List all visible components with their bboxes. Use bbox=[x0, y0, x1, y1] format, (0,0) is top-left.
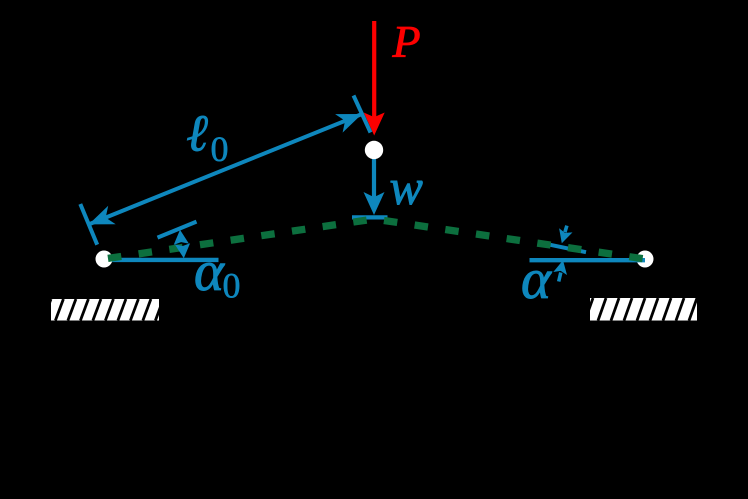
angle alpha: up arrowhead bbox=[553, 260, 567, 275]
pin joint: apex circle bbox=[365, 141, 383, 159]
displacement w: end tick bbox=[352, 215, 388, 219]
wire: horizontal reference line at left pin bbox=[104, 258, 219, 262]
angle alpha0: bar-direction tick bbox=[158, 222, 197, 238]
pin joint: right support circle bbox=[637, 251, 654, 268]
deformed bars: green dashed polyline bbox=[104, 219, 645, 259]
svg-text:α: α bbox=[521, 248, 552, 311]
dimension ell_0: right end tick bbox=[354, 96, 371, 133]
dimension ell_0: shaft bbox=[89, 114, 362, 224]
force P: arrowhead bbox=[364, 113, 385, 136]
svg-text:P: P bbox=[392, 16, 421, 67]
dimension ell_0: left end tick bbox=[80, 204, 97, 245]
support hatching: left bbox=[43, 299, 163, 321]
force P: arrow shaft bbox=[372, 21, 376, 120]
svg-text:ℓ: ℓ bbox=[186, 106, 208, 163]
dimension ell_0: right arrowhead bbox=[335, 114, 362, 133]
displacement w: arrowhead bbox=[364, 192, 385, 215]
wire: horizontal reference line at right pin bbox=[530, 258, 646, 262]
angle alpha0: down arrowhead bbox=[175, 243, 190, 258]
angle alpha: deformed-bar tick bbox=[543, 243, 586, 252]
support hatching: right bbox=[585, 298, 697, 321]
svg-text:0: 0 bbox=[211, 129, 229, 169]
angle alpha: down arrowhead bbox=[559, 228, 572, 243]
displacement w: arrow shaft bbox=[372, 159, 376, 201]
svg-text:0: 0 bbox=[223, 266, 241, 306]
angle alpha: up arrow shaft bbox=[559, 273, 561, 282]
angle alpha0: up arrowhead bbox=[174, 230, 189, 245]
svg-text:w: w bbox=[390, 159, 423, 215]
dimension ell_0: left arrowhead bbox=[89, 206, 116, 225]
angle alpha: down arrow shaft bbox=[565, 226, 567, 233]
pin joint: left support circle bbox=[96, 251, 113, 268]
svg-text:α: α bbox=[194, 240, 225, 303]
